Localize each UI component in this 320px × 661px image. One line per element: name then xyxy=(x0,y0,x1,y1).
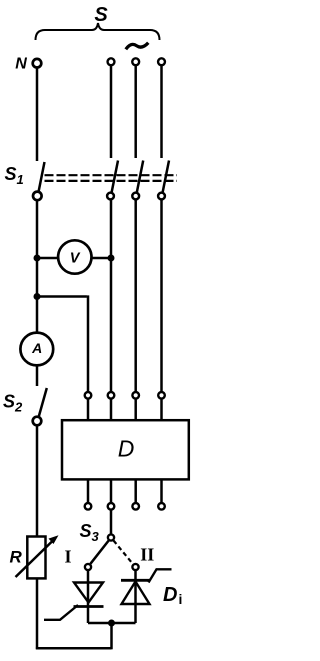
wire phase 1 down xyxy=(110,66,113,158)
wire N line below S1 xyxy=(36,201,39,333)
rheostat R body xyxy=(27,537,45,579)
D box xyxy=(62,420,189,479)
label S3 xyxy=(80,521,100,544)
switch S1 blade pole 2 xyxy=(137,161,143,193)
switch S3 blade to II (dashed) xyxy=(114,541,133,564)
svg-text:S: S xyxy=(94,4,108,26)
junction dot N-branch xyxy=(34,293,41,300)
wire phase 2 below S1 xyxy=(134,200,137,392)
wire branch horizontal to D input xyxy=(37,295,87,298)
thyristor VS1 lead from contact I xyxy=(87,571,90,607)
thyristor Di anode bar xyxy=(121,579,150,582)
phase terminal 2 xyxy=(132,58,139,65)
switch S1 blade pole 1 xyxy=(112,161,118,193)
wire S2 to rheostat xyxy=(36,426,39,536)
wire terminal 1 into D xyxy=(87,399,90,420)
label S2 xyxy=(3,392,23,415)
rheostat R arrow xyxy=(16,535,59,577)
svg-text:A: A xyxy=(31,340,42,356)
wire N terminal down xyxy=(36,68,39,161)
D input terminal 4 xyxy=(158,392,165,399)
switch S1 blade pole 3 xyxy=(163,161,169,193)
D input terminal 1 xyxy=(85,392,92,399)
junction dot phase1-voltmeter xyxy=(108,255,115,262)
wire bottom riser xyxy=(110,623,113,649)
label S1 xyxy=(5,164,24,187)
wire A to S2 xyxy=(36,366,39,386)
ammeter A xyxy=(20,333,53,366)
AC tilde symbol xyxy=(126,43,149,50)
phase terminal 1 xyxy=(108,58,115,65)
voltmeter V xyxy=(58,240,91,273)
wire voltmeter right xyxy=(92,257,112,260)
node N terminal xyxy=(33,59,42,68)
phase terminal 3 xyxy=(158,58,165,65)
label R xyxy=(10,548,23,567)
wire D output 2 to S3 pivot xyxy=(110,510,113,534)
label S (supply) xyxy=(94,4,108,26)
junction dot N-voltmeter xyxy=(34,255,41,262)
switch S1 contact pole 3 xyxy=(158,193,165,200)
wire D output stub 3 xyxy=(134,479,137,503)
thyristor VS1 gate xyxy=(44,605,78,620)
switch S2 contact xyxy=(33,417,42,426)
wire terminal 3 into D xyxy=(134,399,137,420)
thyristor VS1 cathode bar xyxy=(74,605,104,608)
D output terminal 1 xyxy=(85,503,92,510)
D input terminal 2 xyxy=(108,392,115,399)
thyristor Di gate xyxy=(149,569,172,582)
switch S2 blade xyxy=(39,388,47,418)
wire phase 3 down xyxy=(160,66,163,158)
switch S1 contact pole 1 xyxy=(107,193,114,200)
D output terminal 2 xyxy=(108,503,115,510)
switch S3 pivot xyxy=(108,534,114,540)
label D xyxy=(118,436,135,462)
S3 contact I xyxy=(85,564,91,570)
wire bottom horizontal xyxy=(36,647,112,650)
brace over supply lines xyxy=(36,23,160,40)
svg-text:V: V xyxy=(70,250,81,266)
D output terminal 4 xyxy=(158,503,165,510)
wire D output stub 4 xyxy=(160,479,163,503)
S3 contact II xyxy=(132,564,138,570)
wire phase 3 below S1 xyxy=(160,200,163,392)
wire branch down to D terminal xyxy=(87,295,90,391)
label II xyxy=(140,545,154,565)
wire phase 1 below S1 xyxy=(110,200,113,392)
label N xyxy=(15,55,27,72)
switch S1 blade pole N xyxy=(39,162,45,191)
svg-text:D: D xyxy=(118,436,135,462)
switch S1 contact pole 2 xyxy=(132,193,139,200)
wire voltmeter left xyxy=(37,257,59,260)
switch S3 blade to I (solid) xyxy=(90,541,108,564)
wire terminal 4 into D xyxy=(160,399,163,420)
junction dot bottom xyxy=(108,620,115,627)
wire R down to bottom xyxy=(36,578,39,649)
wire D output stub 2 xyxy=(110,479,113,503)
svg-text:R: R xyxy=(10,548,23,567)
switch S1 contact pole N xyxy=(33,192,42,201)
thyristor Di lead from contact II xyxy=(134,571,137,623)
D input terminal 3 xyxy=(132,392,139,399)
svg-text:N: N xyxy=(15,55,27,72)
thyristor Di triangle xyxy=(122,582,150,605)
label I xyxy=(64,547,71,567)
wire D output stub 1 xyxy=(87,479,90,503)
wire phase 2 down xyxy=(134,66,137,158)
label Di xyxy=(163,584,182,607)
D output terminal 3 xyxy=(132,503,139,510)
S1 mechanical link dashed lines xyxy=(45,175,178,181)
svg-text:I: I xyxy=(64,547,71,567)
wire between thyristor cathodes xyxy=(88,622,136,625)
thyristor VS1 triangle xyxy=(74,583,103,603)
thyristor VS1 lead to bottom wire xyxy=(87,607,90,624)
svg-text:II: II xyxy=(140,545,154,565)
wire terminal 2 into D xyxy=(110,399,113,420)
